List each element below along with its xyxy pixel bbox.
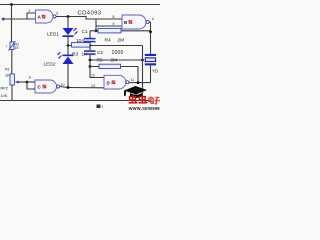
- wire mid link y60: [90, 59, 143, 61]
- svg-text:YD: YD: [152, 68, 158, 73]
- svg-text:10K: 10K: [1, 94, 8, 98]
- wire middle rail: [68, 45, 143, 47]
- wire to gate2: [86, 17, 122, 20]
- node input terminal: [1, 17, 4, 21]
- gate U1B NAND: [122, 15, 149, 29]
- wire gate1 input tie: [27, 13, 35, 19]
- gate U1D NAND: [104, 75, 129, 89]
- resistor RP2 pot: [1, 68, 28, 98]
- LED LED2: [44, 46, 74, 88]
- wire left input horizontal: [2, 18, 35, 20]
- wire gate3 input tie: [26, 81, 29, 84]
- svg-text:10: 10: [61, 83, 65, 87]
- node R4 feedback: [149, 30, 152, 33]
- svg-text:R3: R3: [72, 51, 78, 57]
- wire gate4 upper input: [90, 67, 104, 78]
- node top-left junction: [10, 3, 13, 6]
- svg-text:4: 4: [152, 17, 154, 21]
- svg-text:RP2: RP2: [1, 87, 8, 91]
- node LED1 tap: [67, 15, 70, 18]
- wire divider middle: [11, 50, 13, 75]
- wire divider bottom: [11, 85, 13, 100]
- resistor R4: [90, 28, 150, 43]
- svg-text:t: t: [102, 105, 103, 109]
- svg-text:R4: R4: [105, 38, 111, 44]
- svg-text:LED1: LED1: [47, 32, 59, 38]
- svg-text:R5: R5: [97, 57, 103, 63]
- wire junction vertical x96: [95, 19, 97, 31]
- svg-text:8: 8: [113, 15, 115, 19]
- svg-text:LED2: LED2: [44, 62, 56, 68]
- wire bottom GND rail: [0, 100, 151, 102]
- svg-text:C1: C1: [82, 29, 88, 35]
- resistor R2: [6, 41, 19, 51]
- capacitor C1: [76, 29, 96, 46]
- svg-text:1: 1: [28, 9, 30, 13]
- wire gate1 output: [56, 16, 87, 18]
- svg-text:1K: 1K: [15, 46, 20, 50]
- LED LED1: [47, 17, 78, 46]
- wire gate2 output: [149, 22, 150, 54]
- wire gate3 output: [60, 87, 69, 88]
- buzzer YD: [145, 54, 158, 83]
- svg-text:13: 13: [91, 84, 95, 88]
- svg-text:3: 3: [56, 11, 58, 15]
- svg-text:C2: C2: [97, 50, 103, 56]
- svg-text:9: 9: [113, 22, 115, 26]
- wire gate2 lower input: [96, 25, 122, 27]
- resistor R3: [72, 43, 91, 58]
- capacitor C2: [84, 46, 123, 61]
- wire top VDD rail: [0, 4, 160, 6]
- gate U1A NAND: [36, 10, 57, 23]
- svg-text:R1: R1: [5, 68, 10, 72]
- svg-text:2M: 2M: [118, 38, 125, 44]
- wire left divider vertical: [11, 5, 13, 43]
- gate U1C NAND: [35, 80, 60, 93]
- stray mark: [97, 105, 101, 109]
- svg-text:6: 6: [29, 76, 31, 80]
- svg-text:1K: 1K: [5, 73, 10, 77]
- resistor R5: [89, 57, 138, 82]
- wire right mid vertical: [142, 46, 144, 101]
- svg-text:11: 11: [131, 78, 135, 82]
- svg-text:CD4093: CD4093: [78, 11, 102, 17]
- svg-text:12: 12: [91, 73, 95, 77]
- node LED chain / rail: [67, 44, 70, 47]
- logo watermark: [124, 86, 160, 111]
- svg-text:2M: 2M: [111, 57, 118, 63]
- svg-text:WWW.SEW998: WWW.SEW998: [129, 106, 161, 110]
- svg-text:1000: 1000: [112, 50, 124, 56]
- wire gate4 output: [129, 82, 150, 84]
